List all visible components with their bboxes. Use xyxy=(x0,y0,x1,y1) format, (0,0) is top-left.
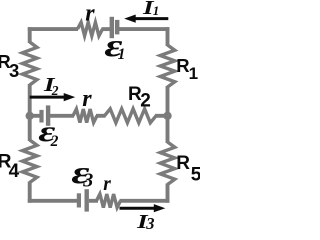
svg-text:3: 3 xyxy=(82,170,93,192)
svg-text:r: r xyxy=(82,86,92,112)
svg-text:3: 3 xyxy=(9,60,19,81)
svg-text:R: R xyxy=(176,55,189,76)
svg-text:3: 3 xyxy=(145,214,154,230)
svg-text:r: r xyxy=(103,174,111,195)
svg-text:2: 2 xyxy=(51,83,59,98)
svg-text:1: 1 xyxy=(153,3,160,18)
svg-text:1: 1 xyxy=(118,46,126,63)
svg-text:2: 2 xyxy=(50,133,59,150)
svg-text:4: 4 xyxy=(9,161,20,182)
svg-text:2: 2 xyxy=(140,90,151,111)
svg-text:5: 5 xyxy=(191,164,200,185)
svg-text:1: 1 xyxy=(189,64,198,83)
svg-text:R: R xyxy=(176,153,190,174)
svg-text:r: r xyxy=(85,1,95,27)
